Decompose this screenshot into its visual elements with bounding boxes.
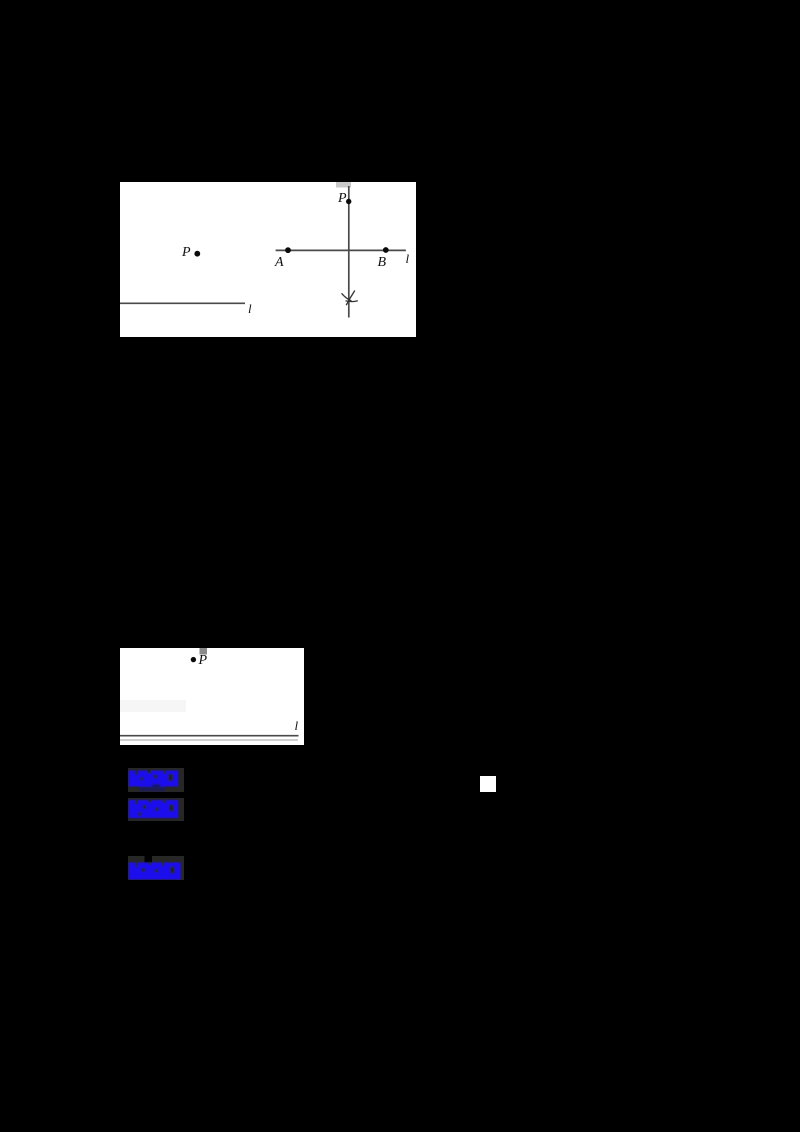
gray cursor square (200, 648, 208, 655)
svg-text:P: P (181, 245, 191, 260)
line shadow (120, 739, 298, 741)
svg-text:P: P (337, 191, 347, 206)
figure panel 2 (white) (120, 648, 304, 745)
line l (left diagram) (120, 302, 245, 304)
gray smudge at top of vertical line (336, 182, 351, 188)
figure panel 1 (white) (120, 182, 416, 337)
blue tag 3 (128, 856, 184, 880)
svg-text:P: P (198, 653, 208, 668)
white marker square (480, 776, 496, 792)
perpendicular line through P (right diagram) (348, 186, 350, 318)
notch (145, 856, 153, 863)
compass arc intersection mark (342, 291, 358, 306)
svg-text:l: l (406, 251, 410, 266)
svg-text:l: l (248, 301, 252, 316)
line l through A and B (right diagram) (276, 249, 406, 251)
line l (120, 735, 299, 737)
svg-text:l: l (295, 718, 299, 733)
point P dot (191, 657, 196, 662)
blue tag 1 (128, 768, 184, 792)
point P dot (right diagram) (346, 199, 351, 204)
point B dot (383, 247, 389, 253)
blue tag 2 (128, 798, 184, 821)
point A dot (285, 247, 291, 253)
svg-text:B: B (378, 255, 387, 270)
point P dot (left diagram) (194, 251, 200, 257)
faint smudge (120, 700, 186, 712)
svg-text:A: A (274, 255, 284, 270)
